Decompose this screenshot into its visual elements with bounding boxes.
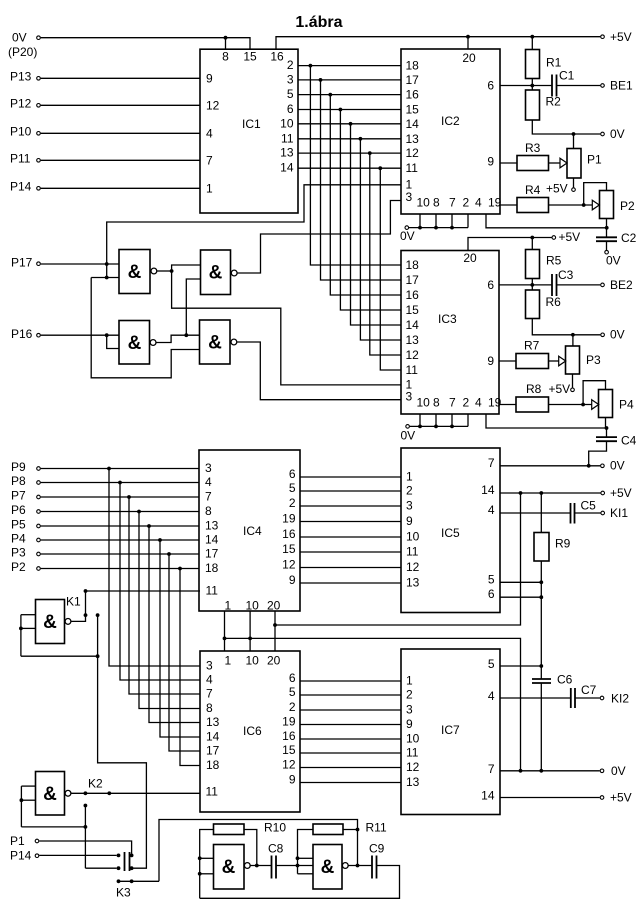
wire +5V bus pins 20: [275, 493, 521, 625]
junction P9 bus: [107, 467, 111, 471]
junction +5V at IC2 pin 20: [466, 35, 470, 39]
potentiometer P4 wiper arrow: [592, 400, 599, 410]
svg-text:13: 13: [280, 146, 294, 160]
svg-text:2: 2: [406, 688, 413, 702]
svg-text:IC1: IC1: [242, 117, 261, 131]
svg-text:P1: P1: [587, 153, 602, 167]
nand gate K1 body: [36, 600, 65, 644]
svg-text:14: 14: [205, 533, 219, 547]
svg-text:P12: P12: [10, 97, 32, 111]
wire C5 to KI1: [575, 512, 601, 514]
svg-text:P11: P11: [10, 152, 31, 166]
svg-text:3: 3: [205, 461, 212, 475]
svg-text:4: 4: [205, 475, 212, 489]
wire pin6 to R6: [531, 285, 533, 290]
terminal P14: [37, 187, 41, 191]
junction bus column 1: [309, 64, 313, 68]
junction R11 output K3 node: [356, 828, 360, 832]
svg-text:3: 3: [206, 659, 213, 673]
wire R7 to P3 wiper: [549, 360, 559, 362]
junction C4 P4 pin4: [605, 426, 609, 430]
svg-text:11: 11: [406, 161, 419, 175]
svg-text:15: 15: [243, 50, 257, 64]
svg-text:2: 2: [289, 496, 296, 510]
svg-text:C4: C4: [621, 434, 637, 448]
terminal P3: [37, 552, 41, 556]
wire P3 bottom stub: [572, 374, 574, 388]
svg-text:R10: R10: [264, 821, 286, 835]
svg-text:1: 1: [406, 470, 413, 484]
junction +5V at R9: [539, 491, 543, 495]
wire IC1 pin 14 to IC2: [298, 167, 401, 169]
junction K3 pole right: [130, 879, 134, 883]
terminal 0V KI1 area: [601, 464, 605, 468]
svg-text:16: 16: [282, 527, 296, 541]
svg-text:20: 20: [463, 251, 477, 265]
svg-text:20: 20: [267, 654, 281, 668]
IC1 body: [200, 49, 298, 213]
wire IC3 pin 9 to R7: [499, 360, 516, 362]
wire IC5 pin 14 +5V: [500, 492, 601, 494]
wire IC3 pin 4 to C4: [486, 414, 607, 428]
svg-text:C1: C1: [559, 69, 575, 83]
wire IC4 to IC5 line 4: [300, 521, 401, 523]
terminal P5: [37, 524, 41, 528]
terminal 0V IC3 bottom: [406, 425, 410, 429]
wire IC4 to IC5 line 2: [300, 490, 401, 492]
wire R11 left to input bar: [298, 830, 314, 874]
svg-text:R11: R11: [366, 821, 387, 835]
wire P16 to gate G3: [41, 334, 119, 336]
wire C2 top lead: [606, 228, 608, 238]
resistor R10: [214, 824, 245, 835]
terminal 0V right1: [601, 132, 605, 136]
junction bus column 7: [368, 151, 372, 155]
svg-text:R1: R1: [546, 56, 562, 70]
terminal P13: [37, 77, 41, 81]
svg-text:BE1: BE1: [610, 79, 633, 93]
IC3 body: [401, 251, 499, 415]
potentiometer P4 body: [599, 390, 613, 418]
wire P14 to IC1: [41, 187, 200, 189]
svg-text:4: 4: [488, 503, 495, 517]
wire bus column 8 to IC3: [380, 168, 401, 370]
svg-text:12: 12: [282, 758, 296, 772]
resistor R11: [313, 824, 343, 835]
svg-text:14: 14: [280, 161, 294, 175]
junction G5 input A: [198, 856, 202, 860]
capacitor C7: [571, 688, 575, 708]
svg-text:5: 5: [289, 481, 296, 495]
wire IC6 to IC7 line 4: [300, 724, 401, 726]
capacitor C2: [596, 237, 617, 241]
svg-text:13: 13: [206, 715, 220, 729]
svg-text:P13: P13: [10, 70, 32, 84]
junction gate G1 output: [170, 269, 174, 273]
svg-text:P4: P4: [11, 532, 26, 546]
wire IC6 to IC7 line 6: [300, 752, 401, 754]
wire IC4 to IC5 line 1: [300, 476, 401, 478]
svg-text:10: 10: [280, 116, 294, 130]
junction gate G1 input B: [105, 276, 109, 280]
svg-text:IC3: IC3: [438, 312, 457, 326]
svg-text:2: 2: [287, 58, 294, 72]
terminal P6: [37, 510, 41, 514]
wire gate G1 output to gate G2 input A: [172, 265, 201, 271]
svg-text:18: 18: [205, 561, 219, 575]
svg-text:0V: 0V: [400, 229, 415, 243]
terminal P17: [37, 262, 41, 266]
terminal 0V IC2 bottom: [405, 226, 409, 230]
svg-text:(P20): (P20): [8, 45, 37, 59]
wire G5 output: [251, 865, 272, 867]
svg-text:0V: 0V: [611, 764, 626, 778]
wire P8 to IC4: [41, 482, 199, 484]
junction P3 bus: [167, 552, 171, 556]
svg-text:P8: P8: [11, 474, 26, 488]
svg-text:11: 11: [406, 363, 419, 377]
junction IC3 0V bus x452: [450, 425, 454, 429]
junction IC3 0V bus x420: [418, 425, 422, 429]
svg-text:20: 20: [267, 599, 281, 613]
wire IC6 to IC7 line 3: [300, 709, 401, 711]
wire G5 input B stub: [200, 873, 214, 875]
svg-text:0V: 0V: [12, 31, 27, 45]
junction K1 input B: [19, 627, 23, 631]
wire K1 input bar: [20, 615, 22, 657]
svg-text:10: 10: [417, 196, 431, 210]
svg-text:15: 15: [406, 303, 420, 317]
junction K3 bottom left: [117, 866, 121, 870]
svg-text:6: 6: [289, 671, 296, 685]
IC7 body: [401, 649, 500, 815]
svg-text:C7: C7: [581, 683, 597, 697]
svg-text:9: 9: [289, 773, 296, 787]
svg-text:2: 2: [406, 484, 413, 498]
svg-text:6: 6: [487, 278, 494, 292]
svg-text:R7: R7: [524, 339, 540, 353]
wire IC4 pin 11 line: [86, 590, 201, 592]
wire P7 to IC4: [41, 496, 199, 498]
svg-text:10: 10: [246, 599, 260, 613]
junction P5 bus: [147, 524, 151, 528]
wire IC7 pin 14 +5V: [500, 797, 600, 799]
wire K3 pole to oscillator: [159, 820, 358, 882]
svg-text:13: 13: [406, 775, 420, 789]
wire gate G1 output to IC3 pin 1: [172, 271, 401, 385]
wire C8 to G6 input: [276, 865, 313, 867]
wire R4 to P2 wiper: [549, 204, 593, 206]
wire IC6 to IC7 line 1: [300, 680, 401, 682]
junction R9 at IC7 pin 5: [539, 664, 543, 668]
svg-text:6: 6: [488, 587, 495, 601]
svg-text:7: 7: [206, 687, 213, 701]
wire R3 to P1 wiper: [549, 162, 561, 164]
svg-text:18: 18: [406, 258, 420, 272]
junction 0V at IC1 pin 8: [224, 36, 228, 40]
svg-text:15: 15: [282, 542, 296, 556]
wire R1 to pin 6 node: [531, 79, 533, 86]
svg-text:P7: P7: [11, 489, 26, 503]
resistor R9: [534, 533, 549, 562]
wire P2 top loop: [584, 183, 607, 205]
svg-text:1.ábra: 1.ábra: [295, 14, 342, 31]
wire K2 input A stub: [21, 785, 35, 787]
wire K1 net to K3: [98, 656, 147, 868]
wire P4 to IC4: [41, 539, 199, 541]
junction 0V at C6 column: [539, 769, 543, 773]
svg-text:17: 17: [406, 273, 420, 287]
wire P5 bus to IC6: [149, 526, 200, 723]
terminal P16: [37, 333, 41, 337]
junction bus column 2: [319, 78, 323, 82]
resistor R5: [526, 250, 540, 279]
wire IC1 pin 11 to IC2: [298, 138, 401, 140]
potentiometer P1 wiper arrow: [560, 158, 567, 168]
svg-text:12: 12: [206, 98, 220, 112]
node K1 feedback cap: [96, 613, 100, 617]
wire C4 bottom to 0V node: [589, 441, 607, 466]
svg-text:C3: C3: [558, 268, 574, 282]
junction G6 output: [356, 864, 360, 868]
resistor R7: [516, 354, 549, 369]
potentiometer P2 wiper arrow: [592, 200, 599, 210]
svg-text:+5V: +5V: [559, 230, 581, 244]
wire IC2 pin 9 to R3: [500, 162, 517, 164]
wire K1 input A stub: [21, 614, 36, 616]
junction gate G4 input A: [184, 333, 188, 337]
terminal +5V under P3: [571, 388, 575, 392]
wire P5 to IC4: [41, 525, 199, 527]
svg-text:17: 17: [406, 73, 420, 87]
junction IC2 0V bus x420: [418, 226, 422, 230]
wire +5V to R5: [531, 238, 533, 250]
svg-text:6: 6: [487, 79, 494, 93]
svg-text:4: 4: [206, 126, 213, 140]
svg-text:&: &: [222, 857, 236, 878]
wire P14 to K3: [39, 854, 116, 856]
svg-text:&: &: [128, 333, 142, 354]
svg-text:10: 10: [246, 654, 260, 668]
svg-text:10: 10: [406, 732, 420, 746]
terminal P14 bottom: [35, 854, 39, 858]
wire P8 bus to IC6: [120, 483, 200, 681]
svg-text:BE2: BE2: [610, 278, 633, 292]
junction P2 bus: [178, 567, 182, 571]
wire P3 to IC4: [41, 553, 199, 555]
wire IC3 bottom pin stub x436: [435, 414, 437, 426]
wire IC3 pin 6 node: [499, 284, 552, 286]
junction 0V at bus column: [519, 769, 523, 773]
wire P13 to IC1: [41, 77, 200, 79]
wire IC2 pin 1 to gate G1 inputs: [107, 185, 401, 278]
svg-text:&: &: [128, 262, 142, 283]
svg-text:13: 13: [406, 132, 420, 146]
svg-text:R3: R3: [525, 141, 541, 155]
nand gate G4 body: [200, 320, 231, 364]
terminal P9: [37, 467, 41, 471]
svg-text:IC4: IC4: [243, 524, 262, 538]
svg-text:P5: P5: [11, 518, 26, 532]
wire G5 input A stub: [200, 857, 214, 859]
svg-text:13: 13: [406, 576, 420, 590]
svg-text:P1: P1: [10, 834, 25, 848]
junction P6 bus: [137, 510, 141, 514]
wire bus column 3 to IC3: [330, 95, 401, 295]
wire P7 bus to IC6: [129, 497, 200, 694]
wire K3 pole bar: [119, 880, 160, 882]
wire IC5 pin 4 to C5: [500, 512, 571, 514]
resistor R2: [526, 90, 540, 120]
terminal 0V under C2: [605, 250, 609, 254]
wire IC5 pin 5: [500, 581, 541, 583]
svg-text:3: 3: [287, 72, 294, 86]
svg-text:16: 16: [282, 729, 296, 743]
svg-text:R9: R9: [555, 537, 571, 551]
wire bus column 5 to IC3: [351, 124, 402, 325]
wire P17 to gate G1: [41, 263, 119, 265]
wire C9 to G5 input feedback: [200, 866, 400, 899]
svg-text:9: 9: [289, 573, 296, 587]
wire IC4 to IC5 line 7: [300, 567, 401, 569]
terminal P11: [37, 159, 41, 163]
svg-text:+5V: +5V: [546, 182, 568, 196]
svg-text:4: 4: [488, 689, 495, 703]
svg-text:C9: C9: [369, 842, 385, 856]
svg-text:19: 19: [488, 396, 502, 410]
wire bus column 4 to IC3: [340, 110, 401, 311]
wire IC2 bottom pin stub x468: [467, 214, 469, 228]
wire P9 to IC4: [41, 468, 199, 470]
wire gate G1 input B stub: [91, 277, 119, 279]
nand gate G2 body: [201, 250, 231, 295]
junction bus column 4: [339, 108, 343, 112]
nand gate G2 bubble: [231, 270, 237, 276]
wire P6 to IC4: [41, 511, 199, 513]
junction K3 pole left: [117, 879, 121, 883]
wire IC6 to IC7 line 5: [300, 738, 401, 740]
wire R9 to C6 chain: [540, 561, 542, 679]
terminal P1 bottom: [35, 839, 39, 843]
svg-text:20: 20: [462, 51, 476, 65]
svg-text:19: 19: [282, 512, 296, 526]
svg-text:&: &: [43, 612, 57, 633]
svg-text:14: 14: [406, 117, 420, 131]
wire IC3 0V bus: [410, 425, 468, 427]
junction P4 wiper rheostat: [581, 403, 585, 407]
svg-text:1: 1: [206, 181, 213, 195]
junction G6 C8 node: [296, 864, 300, 868]
wire P4 top loop: [583, 381, 605, 405]
wire R6 to 0V: [532, 319, 600, 335]
svg-text:5: 5: [488, 657, 495, 671]
IC4 body: [199, 450, 300, 611]
wire K2 input bar: [20, 786, 22, 827]
wire P10 to IC1: [41, 132, 200, 134]
wire P1 bottom stub: [573, 178, 575, 187]
svg-text:7: 7: [206, 153, 213, 167]
junction P7 bus: [127, 495, 131, 499]
wire IC4 pin 10 stub: [249, 611, 251, 651]
wire IC4 to IC5 line 5: [300, 536, 401, 538]
svg-text:5: 5: [289, 685, 296, 699]
capacitor C6: [532, 679, 551, 683]
potentiometer P1 body: [567, 149, 581, 179]
svg-text:+5V: +5V: [610, 486, 632, 500]
terminal 0V KI2 area: [600, 769, 604, 773]
wire R10 right to output: [244, 830, 257, 866]
wire G6 input A stub: [298, 857, 314, 859]
junction R5 R6 C3 at pin 6: [530, 283, 534, 287]
junction P2 wiper rheostat: [582, 203, 586, 207]
wire pin 6 node to R2: [531, 86, 533, 91]
wire R5 to pin 6 node: [531, 279, 533, 285]
IC5 body: [401, 448, 500, 613]
wire pin 11 to K1 output: [71, 591, 85, 621]
wire IC1 pin 2 to IC2: [298, 65, 401, 67]
svg-text:14: 14: [206, 730, 220, 744]
wire IC2 bottom pin stub x436: [435, 214, 437, 228]
wire IC2 0V bus: [409, 227, 468, 229]
wire P12 to IC1: [41, 104, 200, 106]
svg-text:1: 1: [225, 654, 232, 668]
nand gate K2 bubble: [65, 790, 71, 796]
junction 0V bus pin 10: [248, 637, 252, 641]
svg-text:4: 4: [475, 196, 482, 210]
wire R8 to P4 wiper: [549, 404, 592, 406]
terminal +5V IC3: [552, 236, 556, 240]
svg-text:12: 12: [406, 348, 420, 362]
wire IC6 to IC7 line 8: [300, 782, 401, 784]
svg-text:K1: K1: [66, 595, 81, 609]
junction gate G1 input A: [105, 262, 109, 266]
terminal P7: [37, 495, 41, 499]
wire K2 input B stub: [21, 799, 35, 801]
wire IC6 to IC7 line 2: [300, 694, 401, 696]
wire IC1 pin 8 stub: [225, 38, 227, 50]
svg-text:R5: R5: [546, 254, 562, 268]
wire K1 input tie bar: [21, 655, 98, 657]
terminal P12: [37, 104, 41, 108]
svg-text:0V: 0V: [401, 429, 416, 443]
svg-text:3: 3: [406, 499, 413, 513]
junction IC2 0V bus x452: [450, 226, 454, 230]
wire gate G2 output to IC2 pin 3: [237, 201, 401, 274]
junction R1 R2 C1 at pin 6: [530, 84, 534, 88]
svg-text:12: 12: [406, 146, 420, 160]
wire R10 left to input bar: [200, 830, 214, 899]
wire R2 to 0V: [532, 120, 600, 134]
svg-text:&: &: [208, 333, 222, 354]
wire C6 bottom to 0V: [540, 683, 542, 771]
switch K3 contact plates: [125, 852, 130, 871]
wire IC1 pin 13 to IC2: [298, 152, 401, 154]
svg-text:7: 7: [205, 490, 212, 504]
wire G6 input B stub: [298, 873, 314, 875]
wire IC6 to IC7 line 7: [300, 767, 401, 769]
wire R11 right to output: [343, 830, 358, 866]
terminal P2: [37, 567, 41, 571]
svg-text:6: 6: [287, 102, 294, 116]
capacitor C8: [272, 856, 277, 879]
junction G5 output: [255, 864, 259, 868]
wire P9 bus to IC6: [109, 469, 200, 667]
wire P1 to K3: [39, 841, 131, 854]
node K2 output companion: [107, 791, 111, 795]
junction K2 output: [84, 791, 88, 795]
junction +5V at R5: [530, 236, 534, 240]
wire P1 top to 0V: [573, 134, 575, 149]
